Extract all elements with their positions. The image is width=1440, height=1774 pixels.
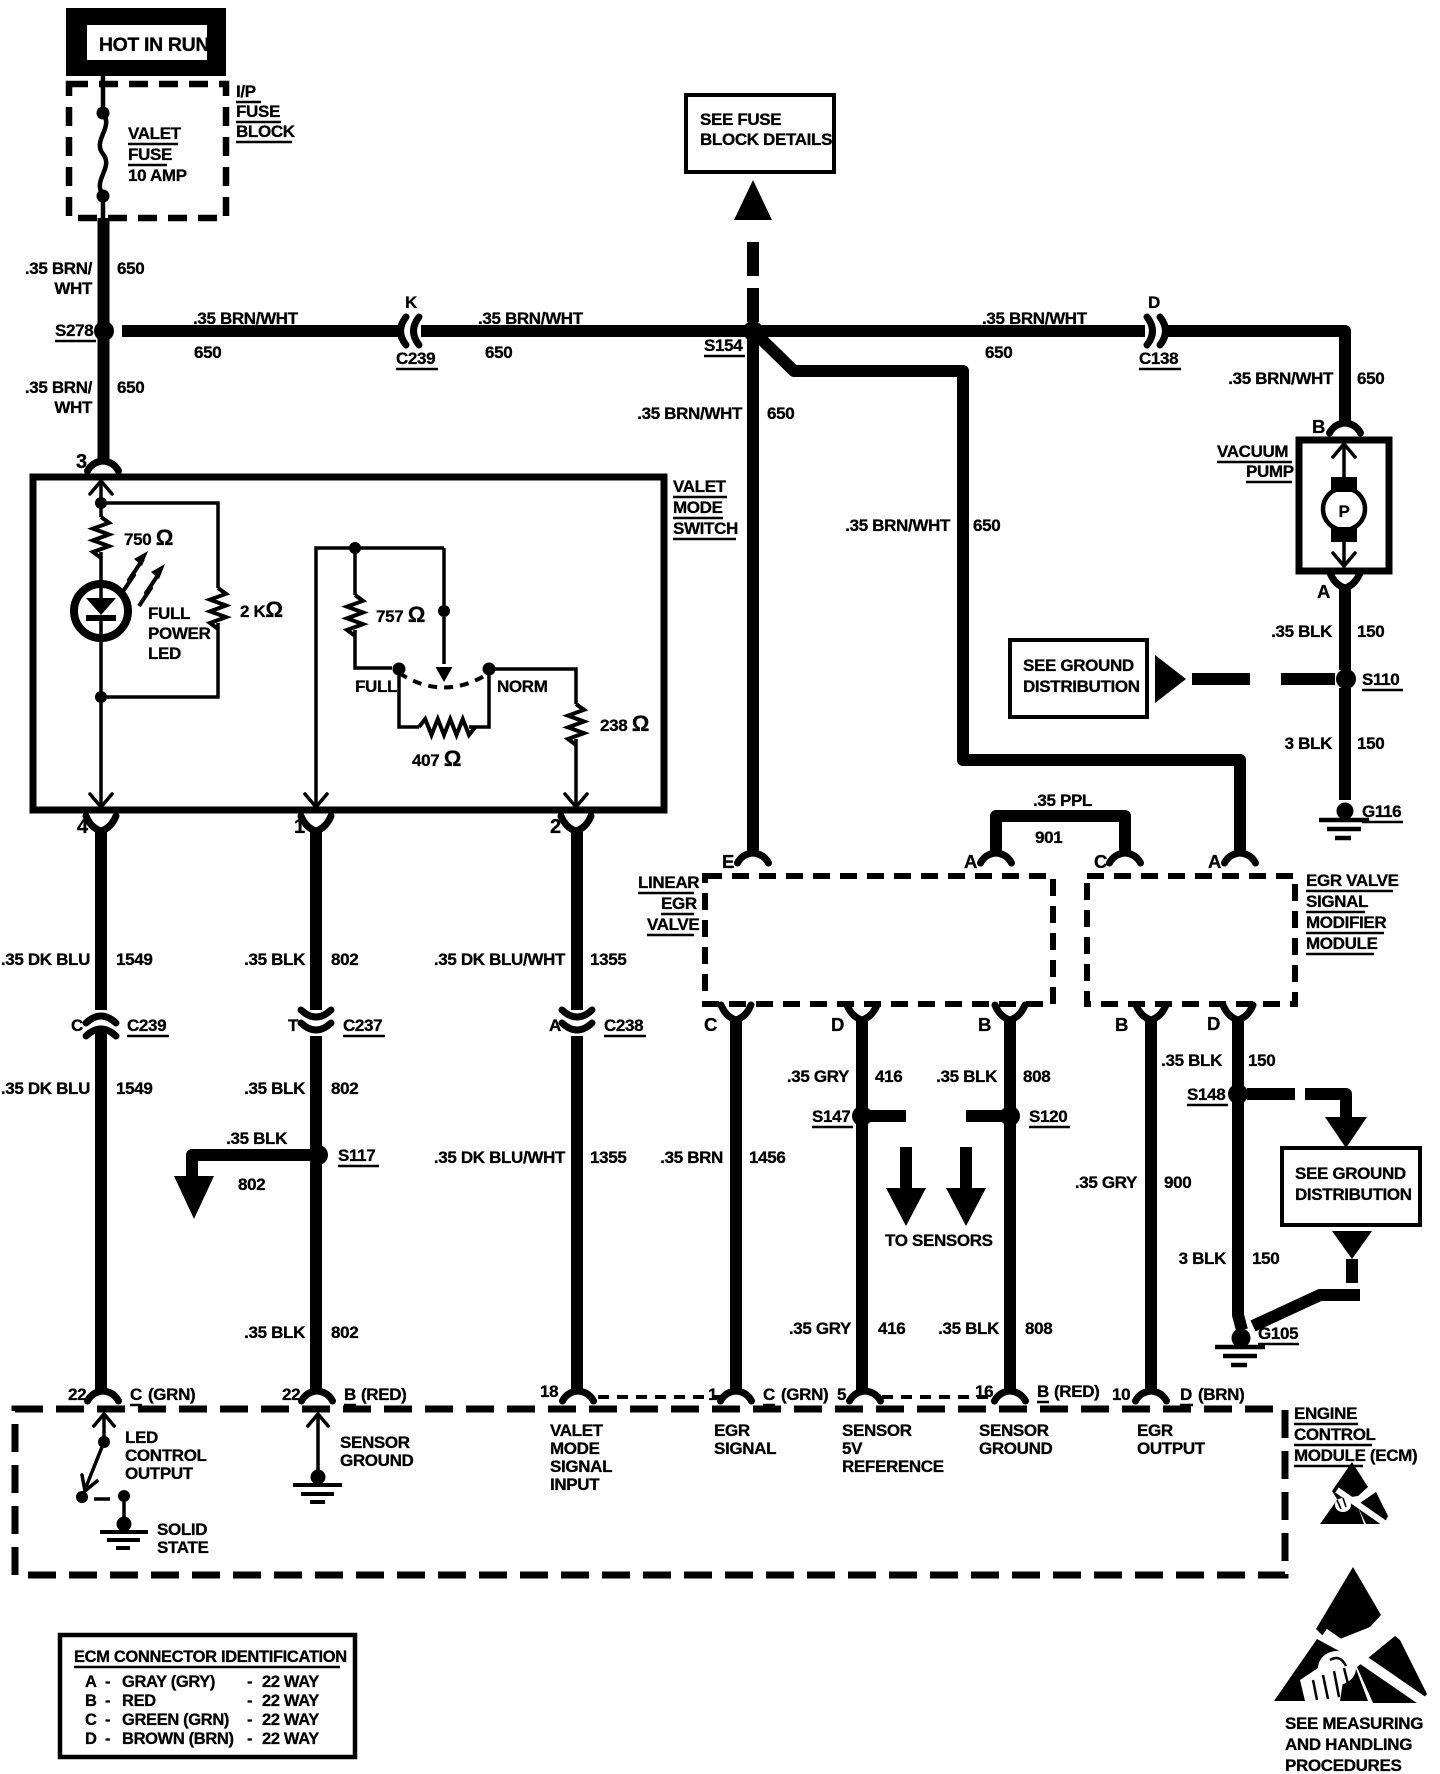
wire 802 pin 1 to C237 <box>310 830 322 1010</box>
svg-text:.35 BLK: .35 BLK <box>226 1129 288 1148</box>
svg-text:DISTRIBUTION: DISTRIBUTION <box>1023 677 1140 696</box>
modifier module pin A <box>1225 853 1256 863</box>
svg-text:B: B <box>344 1385 356 1404</box>
splice S148 <box>1228 1084 1248 1104</box>
svg-text:SIGNAL: SIGNAL <box>1306 892 1368 911</box>
svg-text:.35 PPL: .35 PPL <box>1033 791 1092 810</box>
svg-text:22 WAY: 22 WAY <box>262 1730 319 1748</box>
vacuum pump pin B <box>1330 423 1361 433</box>
svg-text:(BRN): (BRN) <box>1198 1385 1244 1404</box>
wiper wire to arrow <box>442 617 446 664</box>
ECM pin 18 <box>563 1391 594 1401</box>
svg-text:.35 BRN/: .35 BRN/ <box>25 259 93 278</box>
connector C238 pin A <box>562 1010 592 1017</box>
wire 2K ohm to bottom junction <box>101 623 218 697</box>
junction on wiper wire <box>438 605 450 617</box>
svg-text:MODIFIER: MODIFIER <box>1306 913 1386 932</box>
wire S148 right segment <box>1247 1088 1295 1100</box>
svg-text:416: 416 <box>878 1319 905 1338</box>
svg-text:10: 10 <box>1112 1385 1130 1404</box>
svg-text:SENSOR: SENSOR <box>842 1421 912 1440</box>
wire from HOT IN RUN into fuse block <box>101 76 106 112</box>
connector C239 pin C <box>86 1016 116 1023</box>
svg-text:D: D <box>1148 293 1160 312</box>
svg-text:MODULE (ECM): MODULE (ECM) <box>1294 1446 1417 1465</box>
svg-text:(RED): (RED) <box>1054 1382 1099 1401</box>
svg-text:DISTRIBUTION: DISTRIBUTION <box>1295 1185 1412 1204</box>
wire 150 S110 to G116 <box>1339 688 1351 800</box>
svg-text:FUSE: FUSE <box>128 145 172 164</box>
svg-text:VALET: VALET <box>128 124 182 143</box>
svg-text:.35 BRN: .35 BRN <box>660 1148 723 1167</box>
svg-text:C: C <box>763 1385 775 1404</box>
wire 1355 C238 to ECM pin 18 <box>571 1036 583 1392</box>
svg-text:STATE: STATE <box>157 1538 208 1557</box>
svg-text:K: K <box>405 293 418 312</box>
wire stub to sensors arrow (S120) <box>960 1147 972 1189</box>
svg-text:650: 650 <box>485 343 512 362</box>
ECM pin 10 D (BRN) <box>1136 1391 1167 1401</box>
wire 900 EGR output to ECM pin 10 <box>1145 1019 1157 1392</box>
svg-text:22 WAY: 22 WAY <box>262 1711 319 1729</box>
svg-text:SOLID: SOLID <box>157 1520 207 1539</box>
svg-text:LINEAR: LINEAR <box>638 873 699 892</box>
wire 1355 pin 2 to C238 <box>571 830 583 1010</box>
svg-text:-: - <box>105 1673 110 1691</box>
svg-text:650: 650 <box>1357 369 1384 388</box>
svg-text:GROUND: GROUND <box>340 1451 414 1470</box>
svg-text:ENGINE: ENGINE <box>1294 1404 1357 1423</box>
svg-text:150: 150 <box>1252 1249 1279 1268</box>
ECM pin 22 B (RED) <box>302 1391 333 1401</box>
svg-text:SENSOR: SENSOR <box>340 1433 410 1452</box>
svg-text:OUTPUT: OUTPUT <box>1137 1439 1206 1458</box>
wire junction to 757 ohm <box>353 548 357 595</box>
svg-text:.35 BRN/WHT: .35 BRN/WHT <box>845 516 951 535</box>
resistor 750 ohm <box>93 517 109 558</box>
svg-text:B: B <box>978 1014 991 1035</box>
svg-text:.35 GRY: .35 GRY <box>787 1067 850 1086</box>
switch internal wire from pin 3 <box>99 481 103 502</box>
valet switch pin 4 <box>86 816 116 831</box>
wire 901 PPL bridge A to C <box>996 816 1125 853</box>
wire 650 fuse block to S278 <box>98 218 110 331</box>
wire stub to sensors arrow (S147) <box>900 1147 912 1189</box>
svg-text:C: C <box>704 1014 717 1035</box>
svg-text:-: - <box>247 1730 252 1748</box>
svg-text:.35 BRN/WHT: .35 BRN/WHT <box>1228 369 1334 388</box>
svg-text:TO SENSORS: TO SENSORS <box>885 1231 993 1250</box>
arrow from ground distribution <box>1155 655 1186 703</box>
wire 238 ohm to pin 2 <box>574 739 578 806</box>
svg-text:S120: S120 <box>1029 1107 1067 1126</box>
svg-text:A: A <box>964 851 977 872</box>
wiper dashed arc <box>399 673 489 688</box>
callout box SEE FUSE BLOCK DETAILS <box>686 95 834 172</box>
ECM pin 5 <box>850 1391 881 1401</box>
connector C237 pin T <box>301 1010 331 1017</box>
svg-text:4: 4 <box>77 816 89 838</box>
svg-text:2: 2 <box>550 816 561 838</box>
svg-text:S278: S278 <box>55 321 93 340</box>
svg-text:C: C <box>85 1711 97 1729</box>
pump motor circle P <box>1323 488 1365 530</box>
svg-text:WHT: WHT <box>54 279 93 298</box>
svg-text:901: 901 <box>1035 828 1062 847</box>
pump internal arrow down <box>1333 553 1355 566</box>
svg-text:SEE GROUND: SEE GROUND <box>1023 656 1134 675</box>
LED control output switch <box>102 1416 106 1442</box>
svg-text:REFERENCE: REFERENCE <box>842 1457 944 1476</box>
svg-text:-: - <box>105 1730 110 1748</box>
vacuum pump pin A <box>1330 573 1360 588</box>
svg-text:C239: C239 <box>127 1016 166 1035</box>
svg-text:INPUT: INPUT <box>550 1475 600 1494</box>
wire S120 to sensors <box>966 1110 1002 1122</box>
svg-text:D: D <box>831 1014 844 1035</box>
pump internal wire bottom <box>1342 542 1346 566</box>
svg-text:POWER: POWER <box>148 624 211 643</box>
svg-text:MODULE: MODULE <box>1306 934 1378 953</box>
svg-text:C239: C239 <box>396 349 435 368</box>
svg-text:FUSE: FUSE <box>236 102 280 121</box>
svg-text:SIGNAL: SIGNAL <box>714 1439 776 1458</box>
arrow to SEE FUSE BLOCK DETAILS <box>734 180 772 220</box>
dashed connector row 18 to 1 <box>598 1395 722 1399</box>
wire 1549 C239 to ECM pin 22 <box>95 1028 107 1392</box>
svg-text:FULL: FULL <box>355 677 397 696</box>
svg-text:VACUUM: VACUUM <box>1217 442 1288 461</box>
svg-text:C238: C238 <box>604 1016 643 1035</box>
wire junction to pin 4 <box>99 697 103 806</box>
pump internal wire top <box>1342 444 1346 478</box>
svg-text:A: A <box>1317 581 1330 602</box>
svg-text:MODE: MODE <box>673 498 723 517</box>
wire 650 C239 to S154 <box>421 325 752 337</box>
svg-text:.35 GRY: .35 GRY <box>1075 1173 1138 1192</box>
ESD sensitivity symbol (large) <box>1274 1567 1430 1706</box>
power feed box HOT IN RUN <box>66 8 226 76</box>
svg-text:T: T <box>288 1016 299 1035</box>
svg-text:FULL: FULL <box>148 604 190 623</box>
svg-text:NORM: NORM <box>497 677 548 696</box>
wire 650 S278 to valet switch pin 3 <box>98 331 110 461</box>
svg-text:1549: 1549 <box>116 1079 152 1098</box>
svg-text:.35 BRN/WHT: .35 BRN/WHT <box>193 309 299 328</box>
svg-text:16: 16 <box>975 1382 993 1401</box>
svg-text:EGR: EGR <box>661 894 697 913</box>
linear EGR valve pin B (bottom) <box>995 1005 1025 1020</box>
svg-text:GREEN (GRN): GREEN (GRN) <box>122 1711 229 1729</box>
svg-text:.35 BLK: .35 BLK <box>1161 1051 1223 1070</box>
svg-text:G116: G116 <box>1362 802 1401 821</box>
svg-text:5: 5 <box>837 1385 846 1404</box>
svg-text:.35 BLK: .35 BLK <box>936 1067 998 1086</box>
wire 1456 EGR signal to ECM pin 1 <box>730 1019 742 1392</box>
svg-text:CONTROL: CONTROL <box>1294 1425 1376 1444</box>
engine control module box (dashed) <box>15 1409 1285 1575</box>
splice S154 <box>743 321 763 341</box>
svg-text:EGR: EGR <box>714 1421 750 1440</box>
wire 650 C138 to vacuum pump B <box>1167 331 1345 423</box>
svg-text:C237: C237 <box>343 1016 382 1035</box>
svg-text:22: 22 <box>68 1385 86 1404</box>
wire NORM to 238 ohm <box>489 669 576 704</box>
pump internal arrow up <box>1333 444 1355 457</box>
valet switch pin 1 <box>301 816 331 831</box>
splice S120 <box>1000 1106 1020 1126</box>
internal arrow down at pin 1 <box>305 794 327 807</box>
svg-text:650: 650 <box>117 259 144 278</box>
arrow TO SENSORS left <box>886 1188 926 1226</box>
ECM pin 1 C (GRN) <box>721 1391 752 1401</box>
wire junction to 2K ohm <box>101 503 218 588</box>
arrow out of SEE GROUND DISTRIBUTION <box>1332 1231 1372 1259</box>
linear EGR valve pin E <box>738 853 769 863</box>
contact NORM <box>483 663 496 676</box>
svg-text:802: 802 <box>331 1079 358 1098</box>
svg-text:650: 650 <box>194 343 221 362</box>
svg-text:802: 802 <box>331 1323 358 1342</box>
wire 1549 pin 4 to C239 <box>95 830 107 1010</box>
arrow TO SENSORS right <box>946 1188 986 1226</box>
wire pin 1 up and over <box>316 548 444 806</box>
svg-text:LED: LED <box>125 1428 158 1447</box>
wire 808 sensor ground to ECM pin 16 <box>1004 1019 1016 1392</box>
svg-text:S148: S148 <box>1187 1085 1225 1104</box>
svg-text:.35 GRY: .35 GRY <box>789 1319 852 1338</box>
svg-text:D: D <box>1180 1385 1192 1404</box>
wire S147 to sensors <box>870 1110 906 1122</box>
svg-text:VALET: VALET <box>550 1421 604 1440</box>
svg-text:OUTPUT: OUTPUT <box>125 1464 194 1483</box>
svg-text:22 WAY: 22 WAY <box>262 1692 319 1710</box>
svg-text:650: 650 <box>767 404 794 423</box>
valet fuse element <box>100 113 106 195</box>
svg-text:3 BLK: 3 BLK <box>1285 734 1333 753</box>
wire to fuse block edge <box>101 196 106 218</box>
svg-text:802: 802 <box>331 950 358 969</box>
svg-text:-: - <box>105 1692 110 1710</box>
wiper arrow <box>436 667 453 682</box>
wire 750 ohm to LED <box>99 552 103 581</box>
ESD sensitivity symbol (small) <box>1320 1462 1390 1527</box>
svg-text:22: 22 <box>282 1385 300 1404</box>
svg-text:650: 650 <box>985 343 1012 362</box>
svg-text:.35 BLK: .35 BLK <box>1271 622 1333 641</box>
svg-text:(RED): (RED) <box>361 1385 406 1404</box>
svg-text:.35 DK BLU: .35 DK BLU <box>1 950 90 969</box>
linear EGR valve pin C (bottom) <box>721 1005 751 1020</box>
svg-text:.35 BRN/WHT: .35 BRN/WHT <box>478 309 584 328</box>
connector C239 pin K <box>401 317 407 345</box>
svg-text:A: A <box>549 1016 561 1035</box>
svg-text:A: A <box>85 1673 97 1691</box>
linear EGR valve pin D (bottom) <box>847 1005 877 1020</box>
splice S117 <box>308 1145 328 1165</box>
pump motor commutator bottom <box>1331 527 1357 542</box>
ground G116 <box>1337 803 1354 820</box>
svg-text:3 BLK: 3 BLK <box>1179 1249 1227 1268</box>
svg-text:AND HANDLING: AND HANDLING <box>1285 1735 1412 1754</box>
callout box SEE GROUND DISTRIBUTION (right) <box>1282 1148 1420 1225</box>
splice S110 <box>1336 669 1356 689</box>
junction above 757 ohm <box>349 542 361 554</box>
ECM pin 16 B (RED) <box>995 1391 1026 1401</box>
svg-text:ECM CONNECTOR IDENTIFICATION: ECM CONNECTOR IDENTIFICATION <box>74 1648 347 1666</box>
svg-text:LED: LED <box>148 644 181 663</box>
svg-text:150: 150 <box>1357 734 1384 753</box>
internal arrow down at pin 2 <box>565 794 587 807</box>
wire 150 modifier D to S148 <box>1232 1019 1244 1086</box>
svg-text:10 AMP: 10 AMP <box>128 166 187 185</box>
splice S147 <box>852 1106 872 1126</box>
svg-text:EGR VALVE: EGR VALVE <box>1306 871 1399 890</box>
svg-text:S117: S117 <box>338 1146 375 1165</box>
svg-text:.35 BLK: .35 BLK <box>244 950 306 969</box>
resistor 238 ohm <box>568 704 584 745</box>
svg-text:.35 DK BLU/WHT: .35 DK BLU/WHT <box>434 1148 566 1167</box>
svg-text:D: D <box>85 1730 97 1748</box>
arrow down from S117 tap <box>174 1176 214 1219</box>
svg-text:.35 DK BLU/WHT: .35 DK BLU/WHT <box>434 950 566 969</box>
wire LED to bottom junction <box>99 638 103 697</box>
wire 802 C237 to ECM pin 22 <box>310 1036 322 1392</box>
svg-text:-: - <box>105 1711 110 1729</box>
svg-text:B: B <box>85 1692 97 1710</box>
dashed connector row 5 to 16 <box>882 1395 994 1399</box>
linear EGR valve pin A <box>981 853 1012 863</box>
ECM pin 22 C (GRN) <box>88 1391 119 1401</box>
resistor 407 ohm <box>419 719 475 735</box>
dashed wire to S110 <box>1192 673 1335 685</box>
svg-text:-: - <box>247 1711 252 1729</box>
contact FULL <box>393 663 406 676</box>
internal arrow up at pin 3 <box>90 481 112 494</box>
svg-text:B: B <box>1037 1382 1049 1401</box>
svg-text:-: - <box>247 1673 252 1691</box>
junction below LED <box>95 691 107 703</box>
svg-text:1: 1 <box>294 816 305 838</box>
modifier module pin B (bottom) <box>1136 1005 1166 1020</box>
svg-text:PUMP: PUMP <box>1246 462 1294 481</box>
svg-text:.35 DK BLU: .35 DK BLU <box>1 1079 90 1098</box>
wire 650 S154 branch to modifier A <box>753 331 1240 853</box>
svg-text:150: 150 <box>1357 622 1384 641</box>
svg-text:SWITCH: SWITCH <box>673 519 738 538</box>
wiper wire down <box>442 548 446 605</box>
fuse terminal bottom <box>97 190 110 203</box>
svg-text:A: A <box>1208 851 1221 872</box>
svg-text:G105: G105 <box>1258 1324 1298 1343</box>
wire junction to 750 ohm <box>99 503 103 517</box>
EGR valve signal modifier module box (dashed) <box>1087 876 1295 1004</box>
valet switch pin 3 <box>88 461 119 471</box>
full power LED <box>74 584 128 638</box>
splice S278 <box>94 321 114 341</box>
svg-text:.35 BLK: .35 BLK <box>244 1079 306 1098</box>
svg-text:18: 18 <box>540 1382 558 1401</box>
pump motor commutator top <box>1331 477 1357 492</box>
wire 150 S148 down to G105 <box>1238 1102 1242 1330</box>
solid state ground <box>117 1517 132 1532</box>
svg-text:I/P: I/P <box>236 82 256 101</box>
wire return to G105 <box>1253 1295 1360 1326</box>
svg-text:5V: 5V <box>842 1439 863 1458</box>
svg-text:(GRN): (GRN) <box>148 1385 195 1404</box>
wire 757 ohm to FULL contact <box>355 630 392 668</box>
svg-text:SEE FUSE: SEE FUSE <box>700 110 781 129</box>
svg-text:B: B <box>1115 1014 1128 1035</box>
svg-text:802: 802 <box>238 1175 265 1194</box>
svg-text:22 WAY: 22 WAY <box>262 1673 319 1691</box>
ground G105 <box>1232 1329 1251 1348</box>
resistor 2 K ohm <box>210 588 226 629</box>
dashed wire S154 up to fuse block details <box>747 232 759 322</box>
modifier module pin D (bottom) <box>1223 1005 1253 1020</box>
svg-text:BROWN (BRN): BROWN (BRN) <box>122 1730 234 1748</box>
svg-text:1355: 1355 <box>590 1148 626 1167</box>
svg-text:.35 BRN/WHT: .35 BRN/WHT <box>982 309 1088 328</box>
wire S117 tap to sensors arrow <box>192 1155 312 1180</box>
sensor ground symbol (ECM) <box>316 1416 320 1470</box>
svg-text:PROCEDURES: PROCEDURES <box>1285 1756 1401 1774</box>
svg-text:VALVE: VALVE <box>647 915 699 934</box>
wire 650 S154 down to linear EGR valve E <box>747 331 759 853</box>
svg-text:BLOCK: BLOCK <box>236 122 296 141</box>
wire 650 S278 to C239 <box>122 325 399 337</box>
svg-text:150: 150 <box>1248 1051 1275 1070</box>
svg-text:1456: 1456 <box>749 1148 785 1167</box>
wire 150 pump A to S110 <box>1339 585 1351 670</box>
internal arrow down at pin 4 <box>90 794 112 807</box>
svg-text:SENSOR: SENSOR <box>979 1421 1049 1440</box>
svg-text:GRAY (GRY): GRAY (GRY) <box>122 1673 215 1691</box>
svg-text:416: 416 <box>875 1067 902 1086</box>
svg-text:CONTROL: CONTROL <box>125 1446 207 1465</box>
resistor 757 ohm <box>347 595 363 636</box>
vacuum pump box <box>1299 440 1389 571</box>
connector C138 pin D <box>1147 317 1153 345</box>
wire 650 S154 to C138 <box>754 325 1145 337</box>
svg-text:HOT IN RUN: HOT IN RUN <box>99 34 209 56</box>
svg-text:808: 808 <box>1025 1319 1052 1338</box>
I/P fuse block (dashed) <box>69 84 226 218</box>
wire stub below arrow <box>1346 1259 1358 1283</box>
linear EGR valve box (dashed) <box>705 876 1053 1004</box>
svg-text:.35 BRN/: .35 BRN/ <box>25 378 93 397</box>
svg-text:D: D <box>1207 1013 1220 1034</box>
svg-text:S147: S147 <box>812 1107 850 1126</box>
LED light emission arrows <box>122 559 143 593</box>
valet switch pin 2 <box>561 816 591 831</box>
fuse terminal top <box>97 107 110 120</box>
svg-text:E: E <box>722 851 734 872</box>
svg-text:SIGNAL: SIGNAL <box>550 1457 612 1476</box>
svg-text:BLOCK DETAILS: BLOCK DETAILS <box>700 130 832 149</box>
svg-text:-: - <box>247 1692 252 1710</box>
svg-text:SEE MEASURING: SEE MEASURING <box>1285 1714 1423 1733</box>
svg-text:S154: S154 <box>704 336 743 355</box>
svg-text:650: 650 <box>117 378 144 397</box>
svg-text:.35 BLK: .35 BLK <box>244 1323 306 1342</box>
svg-text:VALET: VALET <box>673 477 727 496</box>
svg-text:1355: 1355 <box>590 950 626 969</box>
svg-text:GROUND: GROUND <box>979 1439 1053 1458</box>
arrow into SEE GROUND DISTRIBUTION <box>1325 1117 1367 1148</box>
svg-text:SEE GROUND: SEE GROUND <box>1295 1164 1406 1183</box>
svg-text:C138: C138 <box>1139 349 1178 368</box>
